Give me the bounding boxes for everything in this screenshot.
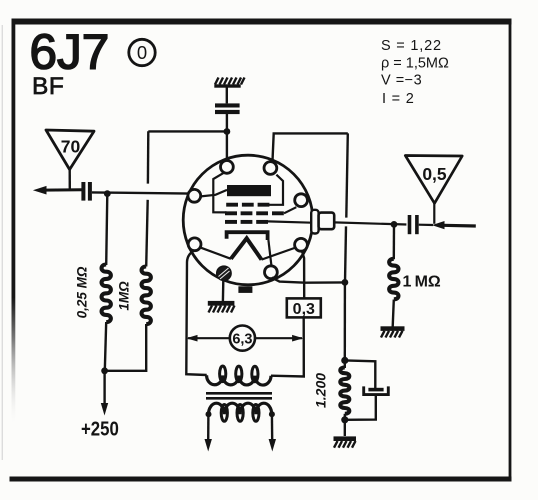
transformer T1 secondary [209, 403, 272, 414]
wire: cathode line pin 5 to node D [272, 278, 345, 283]
wire: g3 row to pin 2 [267, 175, 283, 205]
capacitor C4 (cathode bypass) [364, 386, 389, 394]
node +250 junction [101, 367, 108, 374]
wire: stem from triangle 70 to output line [68, 170, 71, 191]
border frame bottom [10, 477, 512, 482]
svg-text:0: 0 [137, 42, 147, 63]
wire: node F to ground [344, 420, 346, 436]
resistor R4 1.200 (cathode bias) [340, 367, 349, 413]
svg-text:ρ = 1,5MΩ: ρ = 1,5MΩ [381, 56, 449, 72]
svg-text:6J7: 6J7 [30, 25, 110, 80]
wire: node D down to node E [344, 282, 347, 360]
wire: R1 bottom to +250 node [105, 322, 106, 371]
svg-text:6,3: 6,3 [232, 332, 252, 348]
page edge artifact line [2, 25, 3, 460]
wire: 0,3 box down to transformer primary right [271, 317, 304, 376]
transformer T1 primary (heater winding) [207, 375, 271, 385]
wire: grid cap to node C [334, 222, 406, 224]
wire: R4 to node F [344, 414, 346, 420]
transformer T1 core [206, 392, 272, 395]
svg-text:BF: BF [32, 73, 64, 100]
wire: horizontal screen feed to node B [148, 130, 227, 132]
grid g3 dashes (row 1) [226, 203, 269, 207]
node secondary left [206, 411, 212, 417]
wire: R3 to ground [393, 300, 394, 327]
wire: bypass branch node E to C4 [345, 360, 376, 388]
svg-text:1MΩ: 1MΩ [117, 281, 132, 311]
triangle marker 70 (output level) [46, 130, 94, 170]
wire: C2 to top ground [226, 88, 228, 104]
ground (top, hatches above bar) [214, 78, 244, 88]
wire: C4 bottom lead back to node F [345, 396, 376, 420]
wire: secondary left lead arrow down [207, 414, 210, 441]
pin 2 (top-right) [264, 162, 277, 175]
border frame right [509, 20, 512, 481]
octal key [238, 286, 252, 293]
capacitor C3 (input coupling) [408, 215, 419, 234]
wire: shell pin 6 to ground [222, 281, 225, 302]
capacitor C1 (output coupling) [81, 182, 92, 201]
wire: node B up to capacitor C2 [226, 114, 228, 132]
ground (cathode) [334, 436, 357, 447]
cathode staple [227, 232, 268, 240]
current box 0,3 [287, 298, 321, 317]
svg-text:+250: +250 [81, 417, 119, 440]
wire: screen feed riser (R2 top up, crosses plate line with gap) [147, 131, 150, 183]
wire: heater to pin 7 [200, 247, 231, 258]
node B (screen junction) [224, 128, 231, 135]
svg-text:V =−3: V =−3 [381, 73, 422, 89]
wire: heater right pin 4 down through 0,3 [302, 251, 304, 299]
node E (cathode R/C top) [341, 357, 348, 364]
pin 4 (right-lower) [295, 238, 308, 251]
wire: cathode to pin 5 [268, 240, 271, 266]
wire: plate line from C1 to tube [92, 192, 191, 193]
wire: heater to pin 4 [262, 248, 296, 260]
wire: g1 row to grid cap [268, 221, 312, 222]
svg-text:1 MΩ: 1 MΩ [403, 274, 441, 291]
wire: stem from triangle 0,5 [433, 203, 435, 224]
resistor R2 1 Mohm (screen feed) [142, 267, 151, 325]
input arrow [432, 221, 445, 229]
pin 1 (top-left) [221, 161, 234, 174]
border frame left (fades out near bottom) [12, 19, 16, 429]
grid cap plug [319, 213, 335, 230]
svg-text:S = 1,22: S = 1,22 [381, 38, 442, 54]
wire: suppressor tie elbow (top-right pin up/right/down to cathode node) [272, 133, 347, 163]
anode plate bar [227, 185, 271, 196]
svg-text:1.200: 1.200 [313, 373, 329, 408]
wire: heater left pin 7 down to transformer primary left [186, 250, 206, 375]
svg-text:70: 70 [61, 137, 81, 157]
pin 5 (bottom-right) [265, 266, 278, 279]
ground (tube shell) [208, 301, 235, 313]
svg-text:0,25 MΩ: 0,25 MΩ [75, 266, 90, 318]
wire: output line from arrow to capacitor C1 [44, 188, 82, 191]
pin 3 (right-upper) [295, 194, 308, 207]
resistor R1 0,25 Mohm (plate load) [102, 265, 111, 323]
wire: R2 bottom elbow to +250 node [105, 324, 146, 371]
ground (grid leak) [381, 326, 405, 337]
output arrow (left) [33, 186, 47, 195]
grid cap base [311, 210, 318, 234]
wire: input lead [443, 224, 476, 228]
grid g2 dashes (row 2) [225, 211, 284, 215]
grid g1 dashes (row 3) [225, 220, 268, 224]
border frame top [12, 19, 512, 25]
pin 6 shell pin (filled) [217, 266, 231, 280]
svg-text:I = 2: I = 2 [382, 91, 415, 107]
wire: node E to R4 [344, 360, 346, 368]
svg-text:0,3: 0,3 [293, 301, 315, 318]
node A (plate junction) [104, 190, 111, 197]
pin 7 (left-lower) [188, 238, 201, 251]
resistor R3 1 Mohm (grid leak) [389, 259, 398, 300]
node C (grid junction) [391, 221, 398, 228]
tube type circled 0 badge [129, 39, 155, 65]
wire: node C down to R3 [393, 224, 396, 259]
wire: node A down to R1 [106, 194, 107, 265]
heater filament [231, 238, 262, 259]
wire: g2 row to pin 3 [284, 207, 296, 213]
tube 6J7 socket outline [183, 155, 313, 285]
wire: g2 row to pin 1 [213, 173, 226, 213]
wire: C3 to input arrow [419, 224, 433, 227]
node F (cathode bottom) [341, 416, 348, 423]
dimension line 6,3 (heater voltage) [186, 326, 303, 351]
node D (cathode junction) [342, 279, 349, 286]
pin 8 (left-upper) [188, 189, 201, 202]
wire: plate to pin 8 [201, 190, 227, 197]
wire: node B down to tube pin (screen) [226, 132, 228, 162]
node secondary right [269, 411, 275, 417]
svg-text:0,5: 0,5 [422, 164, 447, 184]
capacitor C2 (screen bypass) [215, 103, 240, 114]
wire: +250 feed arrow down [103, 371, 105, 405]
triangle marker 0,5 (input level) [405, 156, 462, 204]
wire: secondary right lead arrow down [271, 414, 274, 441]
